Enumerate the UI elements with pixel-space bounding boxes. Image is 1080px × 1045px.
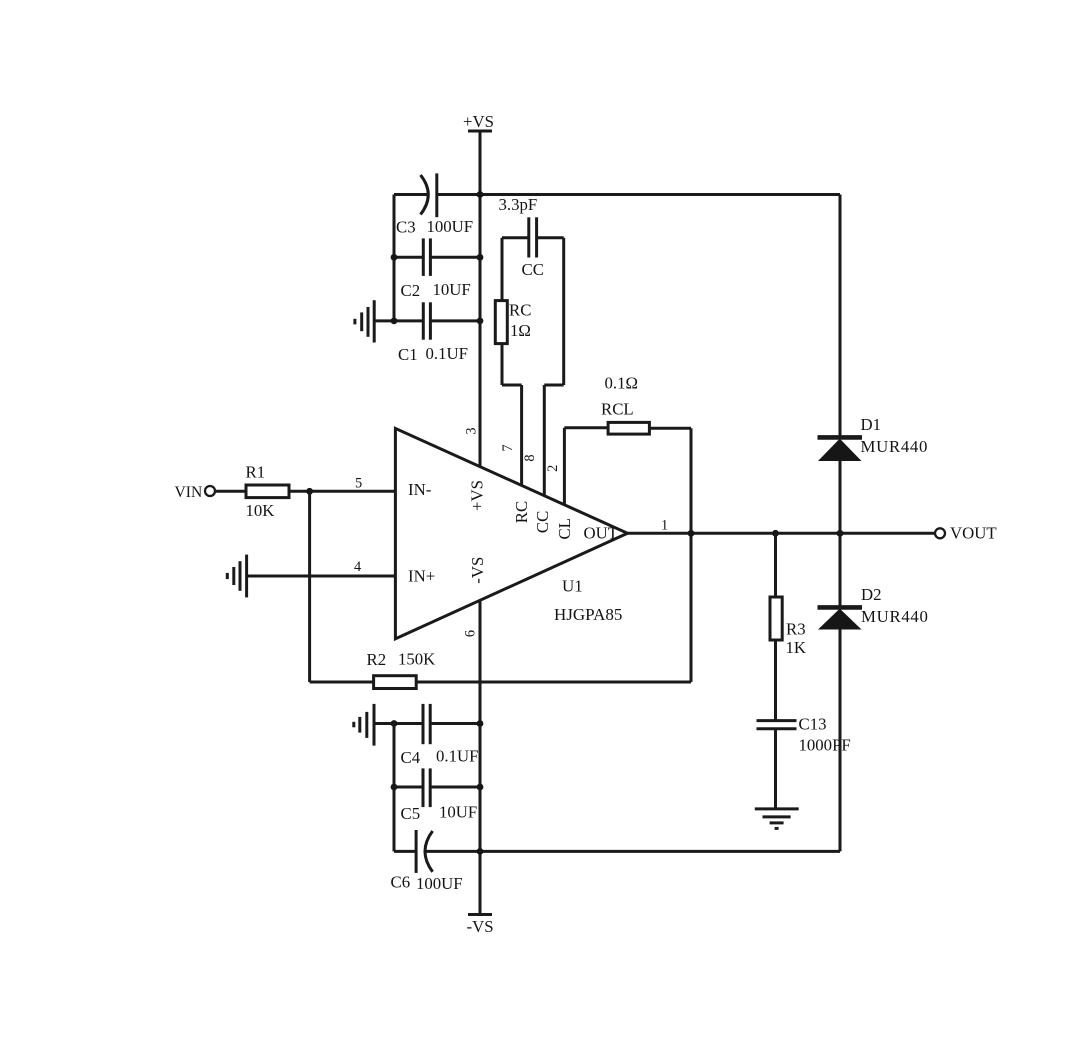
- capacitor C1: [423, 302, 430, 339]
- wire R3 top: [774, 533, 777, 597]
- wire C1 row: [374, 319, 480, 322]
- wire right rail top (to D1): [839, 195, 842, 437]
- ground C13: [755, 809, 799, 829]
- wire feedback bottom left segment: [310, 681, 374, 684]
- wire pin 6 vertical / -VS rail: [479, 600, 482, 914]
- node +VS terminal bar: [468, 130, 492, 133]
- node -VS terminal bar: [468, 913, 492, 916]
- wire C2 row: [394, 256, 480, 259]
- svg-text:C5: C5: [401, 804, 421, 823]
- svg-text:CL: CL: [555, 518, 574, 539]
- wire R3 to C13: [774, 640, 777, 721]
- svg-text:+VS: +VS: [463, 112, 494, 131]
- svg-text:0.1UF: 0.1UF: [436, 747, 478, 766]
- svg-text:1000PF: 1000PF: [799, 736, 851, 755]
- svg-text:R2: R2: [367, 650, 387, 669]
- wire RCL right: [649, 427, 691, 430]
- wire RC branch left vertical: [502, 238, 522, 385]
- wire feedback bottom right segment: [416, 681, 691, 684]
- svg-text:+VS: +VS: [467, 480, 486, 511]
- wire R1 to IN- (pin 5): [289, 490, 395, 493]
- diode D1: [818, 437, 863, 461]
- wire left vertical C4-C6: [393, 724, 396, 852]
- wire output pin 1: [628, 532, 936, 535]
- diode D2: [818, 607, 863, 629]
- node junction C1 left: [391, 318, 398, 325]
- svg-text:1K: 1K: [786, 638, 807, 657]
- node junction feedback/output: [688, 530, 695, 537]
- svg-text:1Ω: 1Ω: [510, 321, 531, 340]
- svg-text:MUR440: MUR440: [861, 607, 929, 626]
- node junction C4 right: [477, 720, 484, 727]
- svg-text:100UF: 100UF: [427, 217, 474, 236]
- wire feedback right vertical: [690, 428, 693, 682]
- wire CC branch right vertical: [544, 238, 563, 385]
- svg-text:3: 3: [464, 427, 480, 434]
- svg-text:10K: 10K: [246, 501, 275, 520]
- wire top horizontal rail left segment: [394, 193, 427, 196]
- capacitor C2: [423, 238, 430, 276]
- svg-text:100UF: 100UF: [416, 874, 463, 893]
- wire C5 row: [394, 786, 480, 789]
- terminal VIN circle: [205, 486, 215, 496]
- node junction C1 right: [477, 318, 484, 325]
- wire C6 row left: [394, 850, 416, 853]
- svg-text:RC: RC: [512, 501, 531, 523]
- wire right rail D1 to D2: [839, 461, 842, 606]
- node junction C4 left: [391, 720, 398, 727]
- capacitor C5: [423, 768, 430, 807]
- wire C13 to ground: [774, 729, 777, 809]
- capacitor C3: [421, 173, 437, 217]
- node junction C2 left: [391, 254, 398, 261]
- svg-text:D2: D2: [861, 585, 882, 604]
- svg-text:VOUT: VOUT: [950, 524, 997, 543]
- resistor RC: [495, 301, 507, 344]
- svg-text:C2: C2: [401, 281, 421, 300]
- capacitor CC 3.3pF: [529, 217, 537, 257]
- svg-text:C13: C13: [799, 715, 827, 734]
- svg-text:C6: C6: [391, 873, 411, 892]
- node junction D-rail/output: [837, 530, 844, 537]
- svg-text:RC: RC: [509, 301, 531, 320]
- svg-text:C3: C3: [396, 218, 416, 237]
- wire feedback left vertical: [308, 491, 311, 682]
- node junction R1/feedback: [306, 488, 313, 495]
- wire top horizontal rail right segment: [437, 193, 840, 196]
- resistor RCL: [608, 422, 649, 434]
- svg-text:C4: C4: [401, 748, 421, 767]
- svg-text:MUR440: MUR440: [861, 437, 929, 456]
- svg-text:U1: U1: [562, 577, 583, 596]
- svg-text:0.1Ω: 0.1Ω: [605, 374, 638, 393]
- op-amp U1 triangle: [395, 428, 627, 638]
- svg-text:1: 1: [661, 518, 668, 534]
- svg-text:OUT: OUT: [584, 524, 619, 543]
- svg-text:R3: R3: [786, 620, 806, 639]
- svg-text:8: 8: [522, 454, 538, 461]
- ground top-left: [355, 300, 374, 342]
- capacitor C6: [416, 830, 433, 873]
- svg-text:-VS: -VS: [468, 557, 487, 584]
- svg-text:10UF: 10UF: [439, 803, 477, 822]
- wire C4 row: [374, 722, 480, 725]
- capacitor C4: [423, 704, 430, 744]
- svg-text:0.1UF: 0.1UF: [426, 344, 468, 363]
- node junction C5 right: [477, 784, 484, 791]
- svg-text:3.3pF: 3.3pF: [499, 195, 538, 214]
- svg-text:4: 4: [354, 559, 361, 575]
- ground bottom-left: [354, 704, 374, 746]
- svg-text:VIN: VIN: [175, 484, 203, 501]
- node junction C5 left: [391, 784, 398, 791]
- svg-text:CC: CC: [533, 511, 552, 533]
- resistor R3: [770, 597, 782, 640]
- node junction R3/output: [772, 530, 779, 537]
- resistor R1: [246, 485, 289, 498]
- wire right rail D2 to bottom: [839, 629, 842, 851]
- wire ground to IN+ (pin 4): [247, 575, 396, 578]
- wire pin 2 to RCL: [564, 426, 608, 429]
- svg-text:RCL: RCL: [601, 400, 634, 419]
- terminal VOUT circle: [935, 528, 945, 538]
- ground input (IN+): [227, 555, 246, 598]
- wire CC box top: [502, 236, 564, 239]
- svg-text:C1: C1: [398, 345, 418, 364]
- wire left vertical C3-C1: [393, 195, 396, 321]
- node junction top rail / +VS: [477, 191, 484, 198]
- wire pin 7 vertical: [520, 385, 523, 486]
- wire pin 8 vertical: [543, 385, 546, 496]
- svg-text:HJGPA85: HJGPA85: [554, 605, 622, 624]
- svg-text:D1: D1: [861, 415, 882, 434]
- svg-text:CC: CC: [522, 260, 544, 279]
- svg-text:R1: R1: [246, 463, 266, 482]
- svg-text:2: 2: [545, 465, 561, 472]
- svg-text:7: 7: [500, 444, 516, 451]
- capacitor C13: [757, 721, 797, 729]
- wire VIN to R1: [216, 490, 247, 493]
- wire C6 row right / bottom rail: [426, 850, 840, 853]
- svg-text:6: 6: [463, 630, 479, 637]
- resistor R2: [374, 676, 417, 689]
- svg-text:150K: 150K: [398, 650, 435, 669]
- wire +VS rail vertical (pin 3): [479, 131, 482, 467]
- svg-text:IN-: IN-: [408, 480, 431, 499]
- wire pin 2 vertical: [563, 428, 566, 505]
- svg-text:5: 5: [355, 476, 362, 492]
- svg-text:IN+: IN+: [408, 567, 435, 586]
- node junction C6 right: [477, 848, 484, 855]
- svg-text:10UF: 10UF: [433, 280, 471, 299]
- svg-text:-VS: -VS: [467, 917, 494, 936]
- node junction C2 right: [477, 254, 484, 261]
